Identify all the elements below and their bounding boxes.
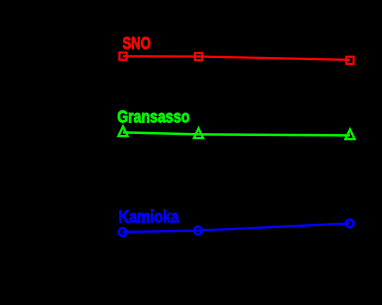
Kamioka marker circle point 3 [346, 220, 354, 228]
Gransasso marker triangle point 1 [118, 126, 127, 136]
series Gransasso line [123, 132, 350, 135]
svg-text:SNO: SNO [123, 33, 151, 53]
SNO marker square point 1 [119, 53, 126, 60]
SNO marker square point 3 [346, 57, 353, 64]
Kamioka marker circle point 2 [194, 227, 202, 235]
series SNO line [123, 56, 350, 60]
Kamioka marker circle point 1 [119, 228, 127, 236]
SNO marker square point 2 [195, 53, 202, 60]
series Kamioka line [123, 223, 350, 232]
Gransasso marker triangle point 3 [345, 129, 354, 139]
Gransasso marker triangle point 2 [194, 128, 203, 138]
svg-text:Kamioka: Kamioka [119, 206, 180, 226]
svg-text:Gransasso: Gransasso [117, 107, 190, 127]
